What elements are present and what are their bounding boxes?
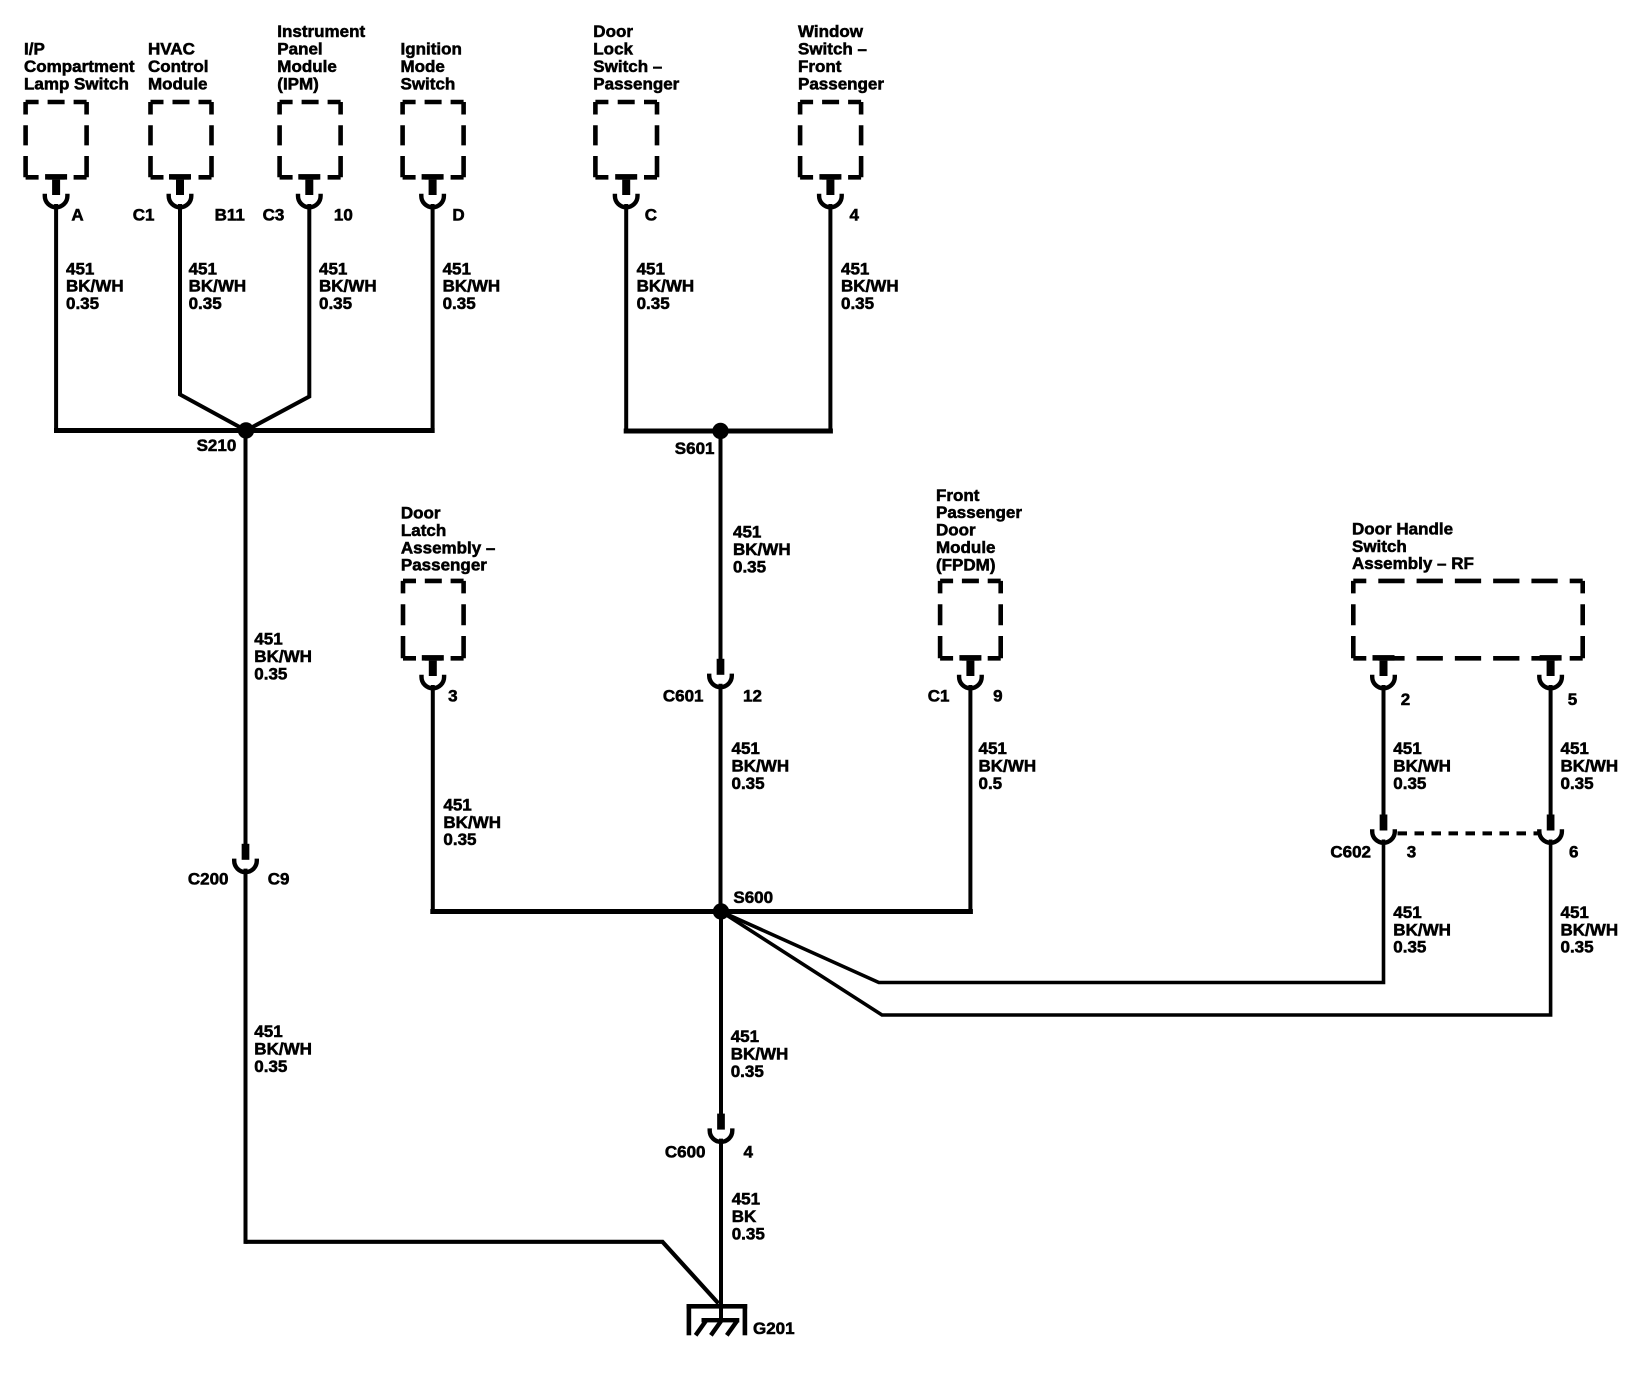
svg-text:0.35: 0.35 [732,1225,765,1244]
svg-text:C1: C1 [928,687,950,706]
svg-text:(IPM): (IPM) [277,74,319,93]
svg-text:Door: Door [593,22,633,41]
svg-text:451: 451 [637,259,665,278]
svg-text:451: 451 [732,1190,760,1209]
svg-text:Door: Door [401,504,441,523]
svg-text:0.35: 0.35 [637,294,670,313]
svg-text:451: 451 [319,259,347,278]
svg-text:Control: Control [148,57,208,76]
svg-text:B11: B11 [215,206,245,225]
svg-text:BK/WH: BK/WH [637,277,695,296]
svg-text:BK/WH: BK/WH [1393,920,1451,939]
svg-text:0.35: 0.35 [443,294,476,313]
svg-text:Module: Module [936,538,996,557]
svg-text:0.35: 0.35 [733,558,766,577]
svg-text:0.35: 0.35 [1561,938,1594,957]
svg-text:C600: C600 [665,1143,706,1162]
svg-text:BK: BK [732,1207,757,1226]
svg-text:0.35: 0.35 [1561,774,1594,793]
svg-text:C3: C3 [263,206,285,225]
svg-text:Latch: Latch [401,521,446,540]
svg-text:451: 451 [1561,739,1589,758]
svg-text:3: 3 [448,687,457,706]
svg-text:0.35: 0.35 [1393,938,1426,957]
svg-text:451: 451 [443,795,471,814]
svg-text:G201: G201 [753,1319,795,1338]
svg-text:BK/WH: BK/WH [1561,757,1619,776]
svg-text:C602: C602 [1330,843,1371,862]
svg-text:BK/WH: BK/WH [1393,757,1451,776]
svg-text:BK/WH: BK/WH [66,277,124,296]
svg-text:Instrument: Instrument [277,22,365,41]
svg-text:0.35: 0.35 [254,1057,287,1076]
svg-text:Switch: Switch [1352,537,1407,556]
svg-text:Passenger: Passenger [401,556,487,575]
svg-text:D: D [452,206,464,225]
svg-text:4: 4 [850,206,860,225]
svg-text:BK/WH: BK/WH [733,540,791,559]
svg-text:451: 451 [443,259,471,278]
svg-text:451: 451 [254,630,282,649]
svg-text:0.5: 0.5 [979,774,1003,793]
svg-text:HVAC: HVAC [148,40,195,59]
svg-text:Module: Module [148,74,208,93]
svg-text:C: C [645,206,657,225]
svg-text:451: 451 [731,1027,759,1046]
svg-text:Front: Front [936,486,980,505]
svg-text:Door: Door [936,521,976,540]
svg-text:BK/WH: BK/WH [1561,920,1619,939]
svg-text:C9: C9 [268,870,290,889]
svg-text:451: 451 [732,739,760,758]
svg-text:BK/WH: BK/WH [319,277,377,296]
svg-text:BK/WH: BK/WH [189,277,247,296]
svg-text:4: 4 [744,1143,754,1162]
svg-text:0.35: 0.35 [189,294,222,313]
svg-text:451: 451 [66,259,94,278]
svg-text:BK/WH: BK/WH [732,757,790,776]
svg-text:6: 6 [1569,843,1578,862]
svg-text:BK/WH: BK/WH [443,813,501,832]
svg-text:BK/WH: BK/WH [979,757,1037,776]
svg-text:0.35: 0.35 [254,664,287,683]
svg-text:(FPDM): (FPDM) [936,555,995,574]
svg-text:Module: Module [277,57,337,76]
svg-text:Front: Front [798,57,842,76]
svg-text:Mode: Mode [401,57,445,76]
svg-text:451: 451 [841,259,869,278]
svg-text:Passenger: Passenger [936,503,1022,522]
svg-text:Switch: Switch [401,74,456,93]
svg-text:Assembly – RF: Assembly – RF [1352,554,1474,573]
svg-text:9: 9 [993,687,1002,706]
svg-text:Window: Window [798,22,864,41]
svg-text:S210: S210 [197,436,237,455]
svg-text:Passenger: Passenger [798,74,884,93]
svg-text:Assembly –: Assembly – [401,538,496,557]
svg-text:0.35: 0.35 [732,774,765,793]
svg-text:I/P: I/P [24,40,45,59]
svg-text:5: 5 [1568,690,1577,709]
svg-text:451: 451 [979,739,1007,758]
svg-text:A: A [71,206,83,225]
svg-text:451: 451 [1561,903,1589,922]
svg-text:3: 3 [1407,843,1416,862]
svg-text:0.35: 0.35 [66,294,99,313]
svg-text:S601: S601 [675,439,715,458]
svg-text:BK/WH: BK/WH [731,1045,789,1064]
svg-text:451: 451 [189,259,217,278]
svg-text:Compartment: Compartment [24,57,135,76]
svg-text:Panel: Panel [277,40,322,59]
svg-text:BK/WH: BK/WH [254,647,312,666]
svg-text:Lock: Lock [593,40,633,59]
svg-text:0.35: 0.35 [319,294,352,313]
svg-text:Passenger: Passenger [593,74,679,93]
svg-text:BK/WH: BK/WH [841,277,899,296]
svg-text:0.35: 0.35 [841,294,874,313]
svg-text:C601: C601 [663,687,704,706]
svg-text:451: 451 [1393,903,1421,922]
svg-text:Switch –: Switch – [593,57,662,76]
svg-text:451: 451 [733,523,761,542]
svg-text:C1: C1 [133,206,155,225]
svg-text:BK/WH: BK/WH [254,1040,312,1059]
svg-text:Ignition: Ignition [401,40,462,59]
svg-text:2: 2 [1401,690,1410,709]
svg-text:Switch –: Switch – [798,40,867,59]
svg-text:451: 451 [1393,739,1421,758]
svg-text:10: 10 [334,206,353,225]
svg-text:Lamp Switch: Lamp Switch [24,74,129,93]
svg-text:0.35: 0.35 [1393,774,1426,793]
svg-text:451: 451 [254,1022,282,1041]
svg-text:C200: C200 [188,870,229,889]
svg-text:S600: S600 [733,888,773,907]
svg-text:0.35: 0.35 [443,830,476,849]
svg-text:Door Handle: Door Handle [1352,519,1453,538]
svg-text:12: 12 [743,687,762,706]
svg-text:0.35: 0.35 [731,1062,764,1081]
svg-text:BK/WH: BK/WH [443,277,501,296]
